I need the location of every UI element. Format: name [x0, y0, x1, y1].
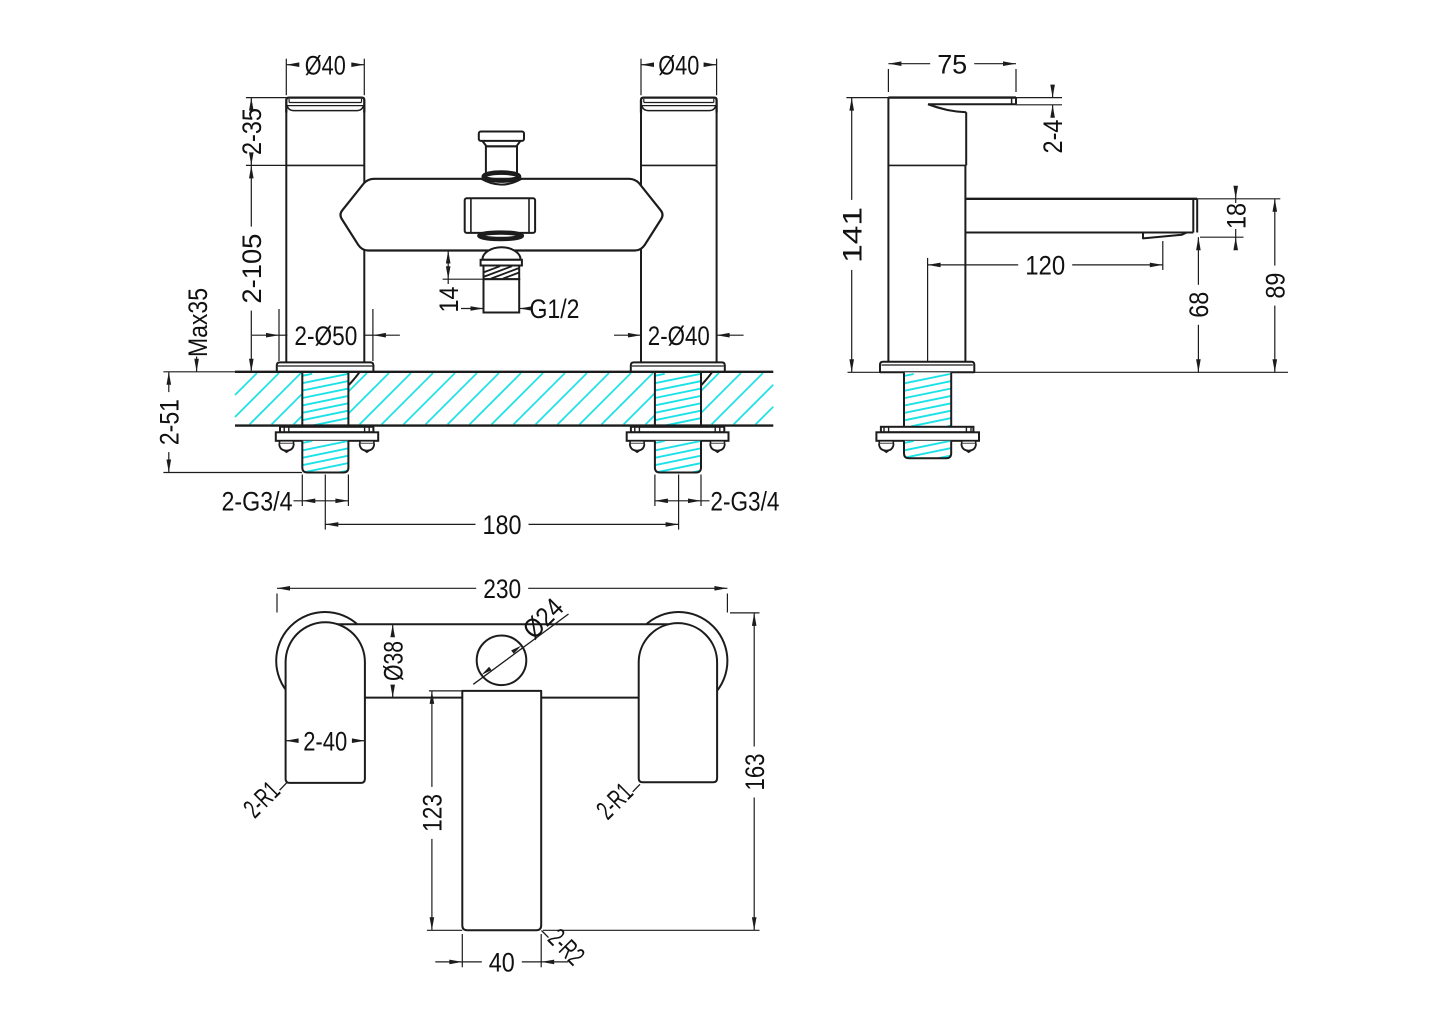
- plan view: left handle: [286, 622, 365, 783]
- plan view: left pillar base circle: [276, 612, 374, 710]
- dimension 141 (overall height): [846, 97, 888, 99]
- threaded tail: [904, 441, 951, 458]
- side view: inlet pipe through deck: [904, 372, 951, 426]
- svg-text:2-Ø50: 2-Ø50: [294, 321, 357, 351]
- dimension 180 (pillar centres): [324, 475, 326, 530]
- fixing screw: [364, 427, 366, 433]
- connector ring nut: [484, 173, 519, 181]
- pillar base flange: [277, 362, 374, 371]
- dimension 2-Ø40 (right pillar base): [640, 334, 642, 336]
- deck bottom surface line: [235, 424, 773, 426]
- pillar column: [285, 111, 287, 363]
- dimension 2-Ø50 (flange diameter): [278, 309, 280, 361]
- deck top surface line: [235, 371, 773, 373]
- plan view: spout body: [462, 691, 541, 930]
- pillar base flange: [631, 362, 725, 371]
- svg-text:Ø40: Ø40: [658, 50, 699, 80]
- dimension 68 (spout underside height): [1197, 237, 1199, 285]
- dimension 120 (spout reach): [927, 258, 929, 362]
- dimension Ø40 (right pillar): [640, 59, 642, 95]
- fixing screw: [283, 427, 285, 433]
- svg-text:163: 163: [740, 754, 770, 791]
- svg-text:2-35: 2-35: [237, 108, 267, 155]
- bath deck cross-section (hatched): [235, 373, 773, 424]
- svg-text:75: 75: [937, 49, 967, 79]
- svg-text:2-Ø40: 2-Ø40: [648, 321, 710, 351]
- svg-text:14: 14: [434, 287, 464, 313]
- mounting plate upper: [280, 427, 373, 433]
- svg-text:230: 230: [483, 574, 521, 604]
- dimension 75 (pillar depth): [887, 69, 889, 92]
- dimension 18 (spout height): [1197, 198, 1280, 200]
- deck clearance hole / inlet pipe through deck: [655, 372, 713, 426]
- pillar column: [640, 111, 642, 363]
- side view: joint line: [888, 164, 966, 166]
- dimension 2-105 (body height): [250, 165, 252, 226]
- hose outlet collar: [481, 260, 522, 266]
- mounting plate lower: [276, 432, 378, 441]
- svg-text:2-51: 2-51: [154, 399, 184, 445]
- deck clearance hole / inlet pipe through deck: [302, 372, 360, 426]
- side view: spout: [966, 198, 1197, 200]
- pillar joint line: [286, 164, 364, 166]
- side view: handle underside: [928, 104, 966, 112]
- label 2-R2 (spout corner radius): [542, 931, 549, 938]
- dimension 40 (spout width): [461, 934, 463, 967]
- svg-text:G1/2: G1/2: [530, 294, 580, 324]
- pillar joint line: [641, 164, 717, 166]
- dimension 14 (thread length): [443, 278, 484, 280]
- body (horizontal hexagonal housing): [340, 179, 662, 251]
- mounting plate lower: [627, 432, 729, 441]
- fixing screw: [965, 427, 967, 433]
- svg-text:180: 180: [483, 510, 522, 540]
- svg-text:89: 89: [1260, 273, 1290, 299]
- fixing screw: [714, 427, 716, 433]
- dimension 2-35 (handle height): [246, 97, 286, 99]
- label 2-R1 (right handle radius): [633, 784, 640, 792]
- svg-text:141: 141: [837, 207, 867, 263]
- svg-text:120: 120: [1025, 251, 1065, 281]
- side view: aerator: [1143, 233, 1187, 239]
- dimension 2-4 (handle bar): [1016, 97, 1062, 99]
- svg-text:Max35: Max35: [183, 288, 213, 357]
- svg-text:2-4: 2-4: [1038, 120, 1068, 154]
- shower hose connector body: [486, 146, 517, 173]
- side view: base flange: [880, 362, 974, 373]
- plan view: right pillar base circle: [630, 612, 728, 710]
- fixing screw: [634, 427, 636, 433]
- svg-text:40: 40: [489, 948, 515, 978]
- hose outlet pipe: [484, 279, 520, 312]
- mounting plate upper: [881, 427, 974, 433]
- side view: pillar column: [887, 98, 889, 362]
- dimension 230 (overall width): [276, 594, 278, 613]
- pillar cap: [641, 98, 717, 113]
- shower hose connector cap: [479, 132, 524, 141]
- svg-text:123: 123: [418, 794, 448, 832]
- pillar cap: [286, 98, 364, 113]
- hose outlet dome (bottom): [482, 247, 520, 260]
- svg-text:Ø40: Ø40: [305, 50, 346, 80]
- threaded tail: [302, 441, 348, 473]
- plan view: body band: [325, 624, 679, 697]
- side view: deck level line: [848, 371, 1289, 373]
- svg-text:Ø38: Ø38: [378, 641, 408, 681]
- plan view: right handle: [639, 623, 717, 782]
- dimension 123 (spout length): [429, 690, 464, 692]
- leader line Ø24: [473, 614, 568, 684]
- dimension 2-G3/4 (right inlet thread): [654, 475, 656, 507]
- svg-text:2-105: 2-105: [237, 234, 267, 304]
- label 2-R1 (left handle radius): [280, 783, 287, 791]
- mounting plate lower: [876, 432, 979, 441]
- diverter face plate: [465, 198, 535, 233]
- side view: lever handle bar: [888, 96, 1016, 98]
- dimension 89 (spout top height): [1274, 199, 1276, 266]
- diverter ring: [479, 233, 522, 239]
- hose outlet thread G1/2: [484, 266, 520, 280]
- shower hose connector neck: [482, 141, 520, 146]
- shower outlet dome (top): [481, 179, 521, 185]
- svg-text:2-G3/4: 2-G3/4: [710, 486, 779, 516]
- dimension Ø38 (body width): [392, 624, 394, 634]
- dimension G1/2 (hose thread): [461, 308, 484, 310]
- dimension 2-40 (handle width): [286, 740, 297, 742]
- dimension 2-51 (below deck length): [168, 372, 170, 392]
- mounting plate upper: [631, 427, 724, 433]
- fixing screw: [883, 427, 885, 433]
- svg-text:2-40: 2-40: [303, 726, 347, 756]
- dimension 163 (overall depth): [730, 612, 760, 614]
- svg-text:18: 18: [1221, 203, 1251, 229]
- dimension 2-G3/4 (left inlet thread): [301, 475, 303, 507]
- dimension Ø40 (left pillar): [285, 59, 287, 95]
- threaded tail: [655, 441, 701, 473]
- svg-text:68: 68: [1184, 292, 1214, 318]
- svg-text:2-G3/4: 2-G3/4: [222, 486, 293, 516]
- plan view: diverter hole Ø24: [477, 636, 527, 686]
